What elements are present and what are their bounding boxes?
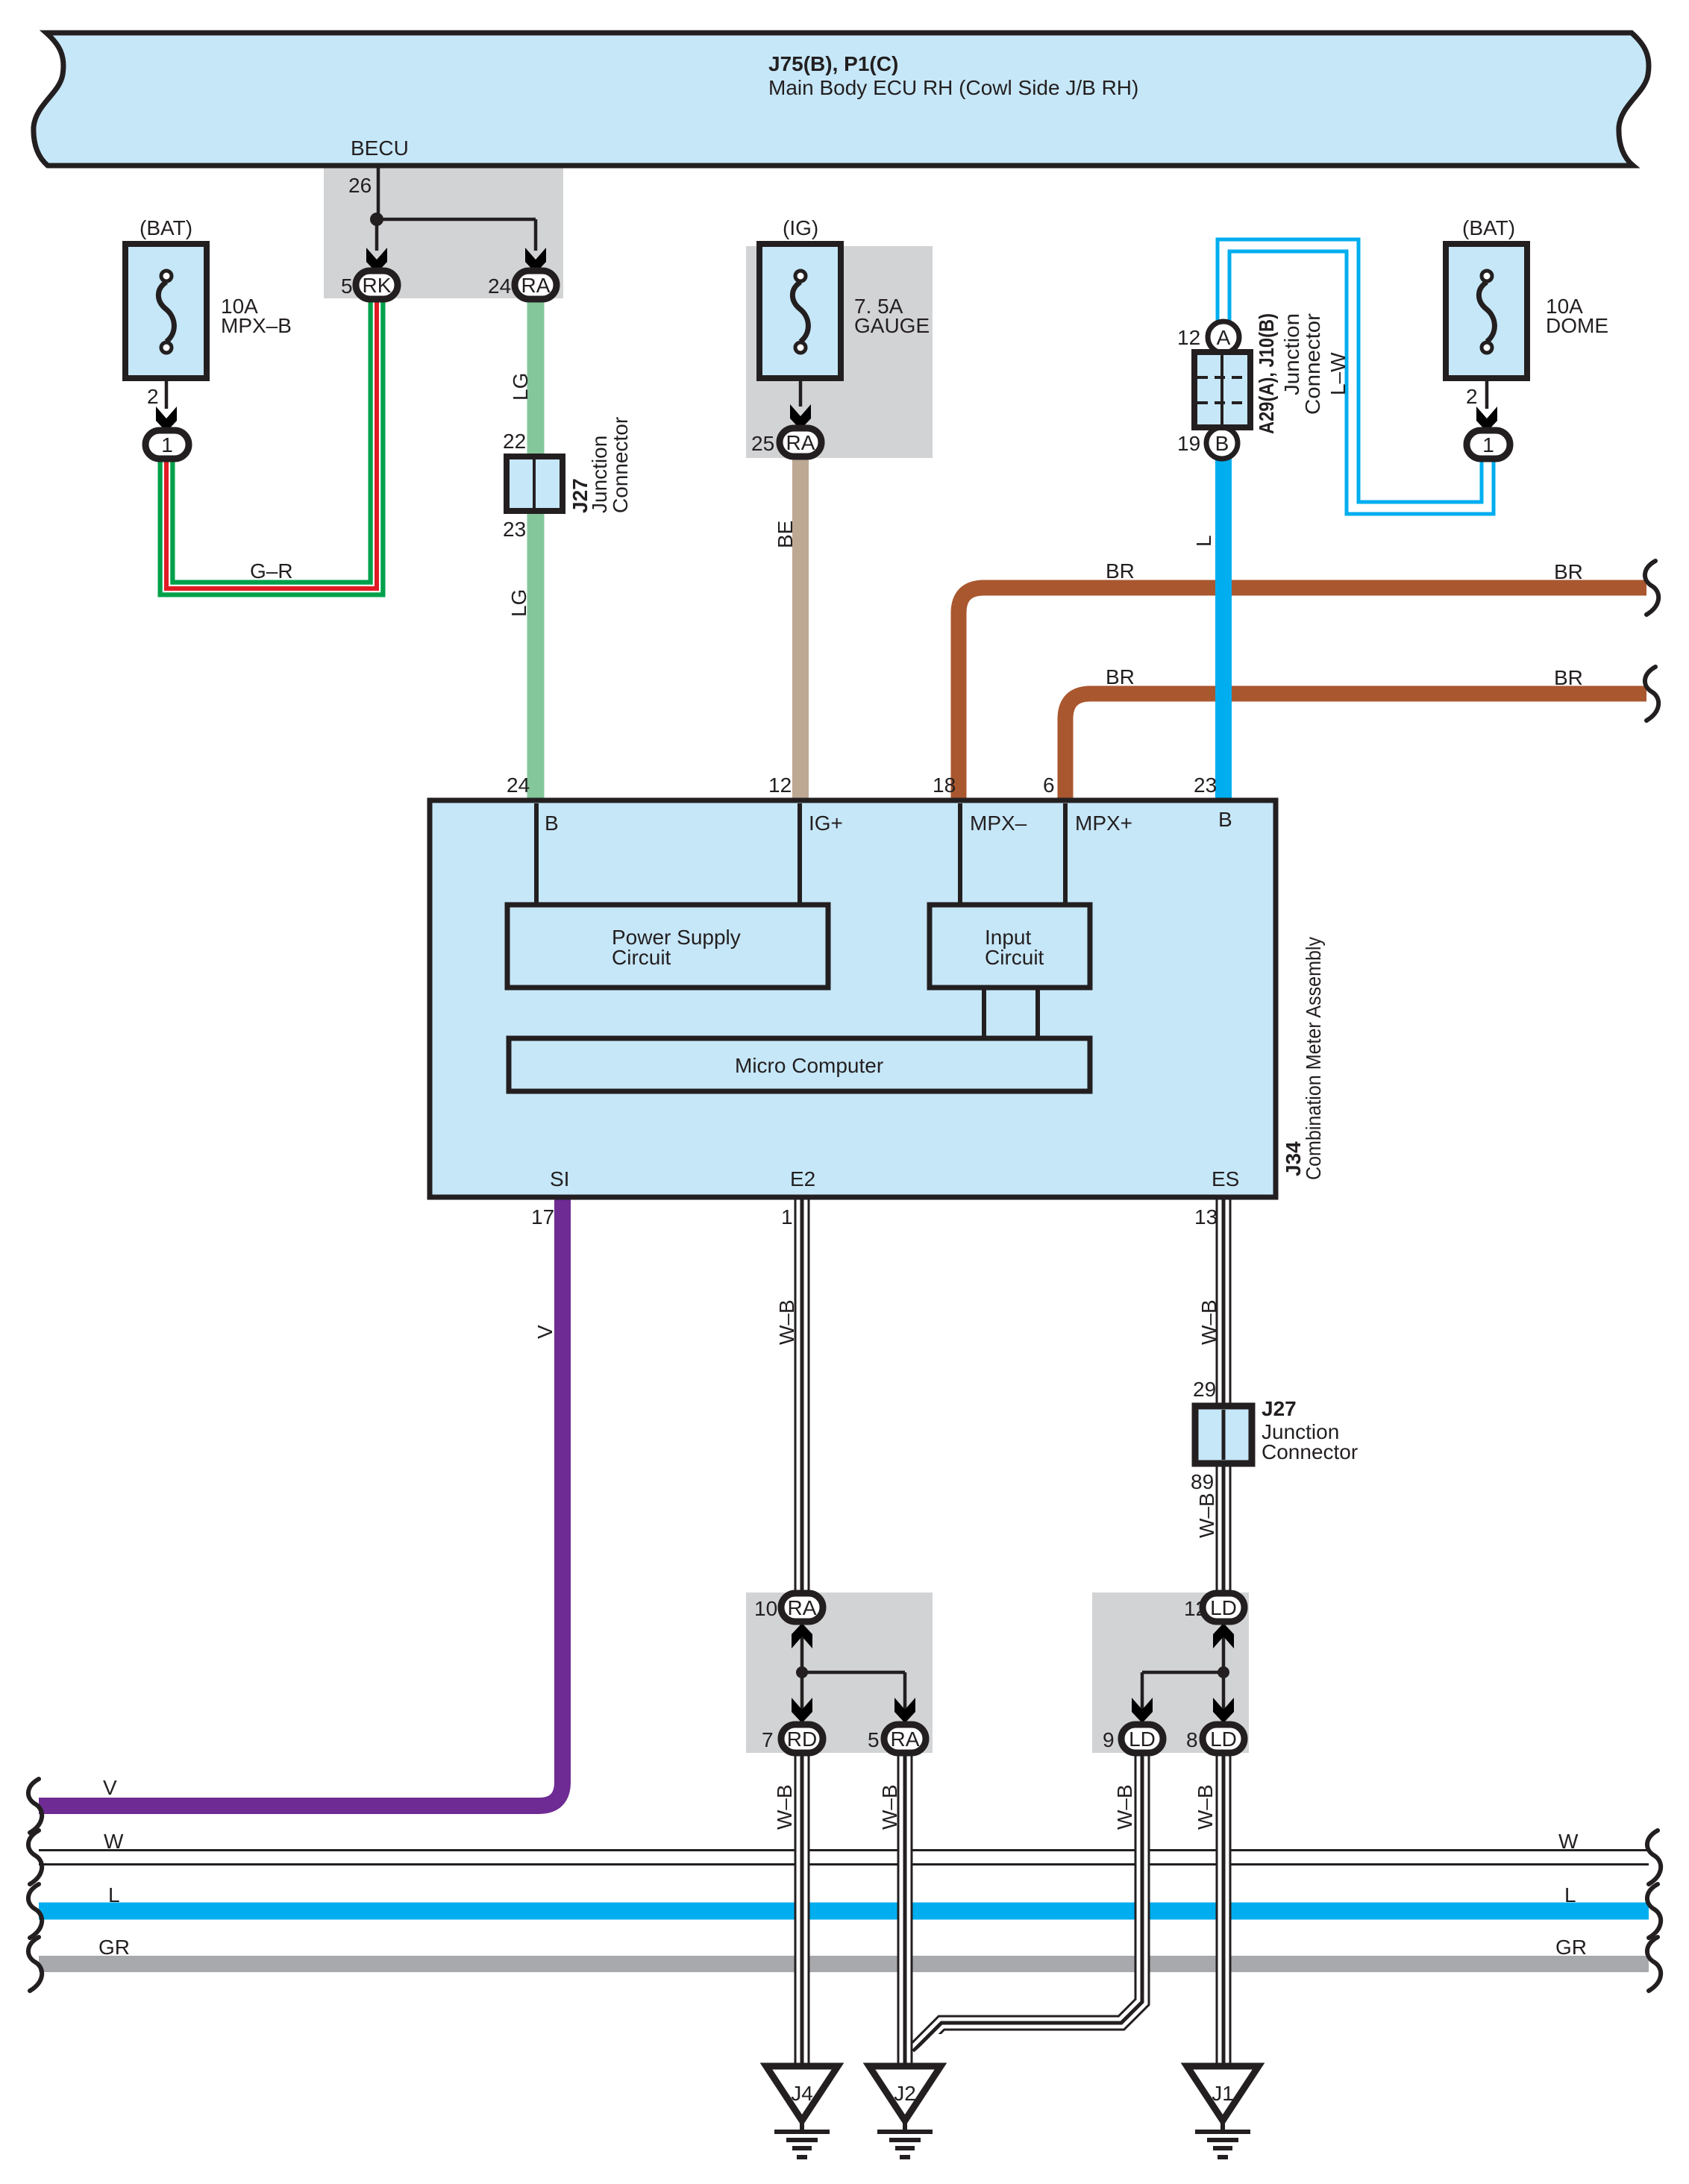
svg-text:(BAT): (BAT) xyxy=(140,216,192,239)
svg-text:23: 23 xyxy=(1194,773,1217,797)
svg-text:W–B: W–B xyxy=(773,1784,796,1830)
svg-text:RK: RK xyxy=(363,274,392,297)
svg-text:J1: J1 xyxy=(1212,2082,1234,2105)
svg-text:5: 5 xyxy=(341,274,353,298)
svg-text:B: B xyxy=(1218,808,1232,831)
svg-text:W–B: W–B xyxy=(1195,1493,1218,1538)
svg-text:J75(B), P1(C): J75(B), P1(C) xyxy=(768,52,898,75)
svg-text:1: 1 xyxy=(781,1205,793,1228)
svg-text:24: 24 xyxy=(488,274,511,298)
svg-text:Junction: Junction xyxy=(1280,313,1303,395)
svg-text:13: 13 xyxy=(1194,1205,1218,1228)
svg-text:J2: J2 xyxy=(894,2082,916,2105)
svg-text:BR: BR xyxy=(1106,665,1135,688)
svg-text:(BAT): (BAT) xyxy=(1462,216,1515,239)
svg-text:BR: BR xyxy=(1554,666,1583,689)
svg-text:LG: LG xyxy=(507,589,530,617)
svg-text:W: W xyxy=(1558,1830,1579,1853)
svg-text:L: L xyxy=(1564,1883,1576,1907)
svg-text:MPX–B: MPX–B xyxy=(221,314,292,337)
svg-text:GR: GR xyxy=(98,1936,130,1959)
svg-text:IG+: IG+ xyxy=(809,812,843,835)
svg-text:RA: RA xyxy=(786,431,815,454)
svg-text:LD: LD xyxy=(1210,1596,1237,1619)
svg-text:W–B: W–B xyxy=(878,1784,901,1830)
svg-text:18: 18 xyxy=(933,773,956,797)
svg-text:E2: E2 xyxy=(790,1167,815,1190)
svg-text:LD: LD xyxy=(1129,1728,1156,1751)
svg-text:89: 89 xyxy=(1191,1470,1214,1493)
svg-text:2: 2 xyxy=(1466,385,1478,408)
svg-text:L: L xyxy=(1192,535,1215,547)
svg-text:RA: RA xyxy=(891,1728,920,1751)
svg-text:SI: SI xyxy=(550,1167,569,1190)
svg-text:Circuit: Circuit xyxy=(985,946,1044,969)
svg-text:24: 24 xyxy=(507,773,530,797)
svg-text:17: 17 xyxy=(531,1205,554,1228)
svg-text:26: 26 xyxy=(348,174,372,197)
svg-text:G–R: G–R xyxy=(250,559,293,583)
svg-text:GAUGE: GAUGE xyxy=(854,314,930,337)
svg-text:V: V xyxy=(103,1776,117,1799)
svg-text:W–B: W–B xyxy=(1194,1784,1217,1830)
svg-text:19: 19 xyxy=(1177,432,1200,455)
svg-text:L: L xyxy=(108,1883,120,1907)
svg-text:(IG): (IG) xyxy=(783,216,818,239)
svg-text:12: 12 xyxy=(1177,326,1200,349)
svg-text:LG: LG xyxy=(509,373,532,401)
svg-text:Circuit: Circuit xyxy=(612,946,671,969)
svg-text:W–B: W–B xyxy=(1113,1784,1136,1830)
svg-text:12: 12 xyxy=(768,773,792,797)
svg-text:W–B: W–B xyxy=(1197,1299,1220,1345)
svg-text:29: 29 xyxy=(1193,1378,1216,1401)
svg-text:MPX+: MPX+ xyxy=(1075,812,1132,835)
svg-text:7: 7 xyxy=(762,1728,774,1751)
svg-text:Micro Computer: Micro Computer xyxy=(735,1054,883,1077)
svg-text:5: 5 xyxy=(868,1728,880,1751)
svg-text:25: 25 xyxy=(751,432,774,455)
svg-text:J4: J4 xyxy=(791,2082,813,2105)
svg-text:RA: RA xyxy=(788,1596,817,1619)
svg-text:W: W xyxy=(104,1830,124,1853)
svg-text:Connector: Connector xyxy=(1301,313,1324,415)
svg-text:B: B xyxy=(1215,432,1229,455)
svg-text:9: 9 xyxy=(1103,1728,1115,1751)
svg-text:V: V xyxy=(533,1325,557,1339)
svg-text:8: 8 xyxy=(1186,1728,1198,1751)
svg-text:A: A xyxy=(1217,326,1231,349)
svg-text:1: 1 xyxy=(1482,433,1494,456)
svg-text:Main Body ECU RH (Cowl Side J/: Main Body ECU RH (Cowl Side J/B RH) xyxy=(768,76,1138,99)
svg-text:1: 1 xyxy=(161,433,173,456)
svg-text:Combination Meter Assembly: Combination Meter Assembly xyxy=(1302,937,1325,1180)
svg-text:A29(A), J10(B): A29(A), J10(B) xyxy=(1255,313,1278,434)
svg-text:J27: J27 xyxy=(1262,1397,1297,1420)
svg-text:ES: ES xyxy=(1212,1167,1239,1190)
svg-text:10: 10 xyxy=(754,1597,777,1620)
svg-text:BE: BE xyxy=(774,521,797,548)
svg-text:Connector: Connector xyxy=(1262,1440,1358,1463)
svg-text:Connector: Connector xyxy=(609,417,632,513)
svg-text:W–B: W–B xyxy=(775,1299,798,1345)
svg-text:2: 2 xyxy=(147,385,159,408)
svg-text:MPX–: MPX– xyxy=(970,812,1027,835)
svg-text:BR: BR xyxy=(1554,560,1583,583)
svg-text:DOME: DOME xyxy=(1546,314,1608,337)
svg-text:L–W: L–W xyxy=(1326,352,1350,395)
svg-text:RA: RA xyxy=(521,274,551,297)
svg-text:RD: RD xyxy=(787,1728,817,1751)
svg-text:BECU: BECU xyxy=(351,136,409,160)
svg-text:Junction: Junction xyxy=(588,436,611,513)
svg-text:23: 23 xyxy=(503,518,526,541)
svg-text:GR: GR xyxy=(1555,1936,1587,1959)
svg-text:BR: BR xyxy=(1106,559,1135,583)
svg-text:12: 12 xyxy=(1184,1597,1207,1620)
svg-text:B: B xyxy=(545,812,559,835)
svg-text:LD: LD xyxy=(1210,1728,1237,1751)
svg-text:6: 6 xyxy=(1043,773,1055,797)
svg-text:22: 22 xyxy=(503,430,526,453)
